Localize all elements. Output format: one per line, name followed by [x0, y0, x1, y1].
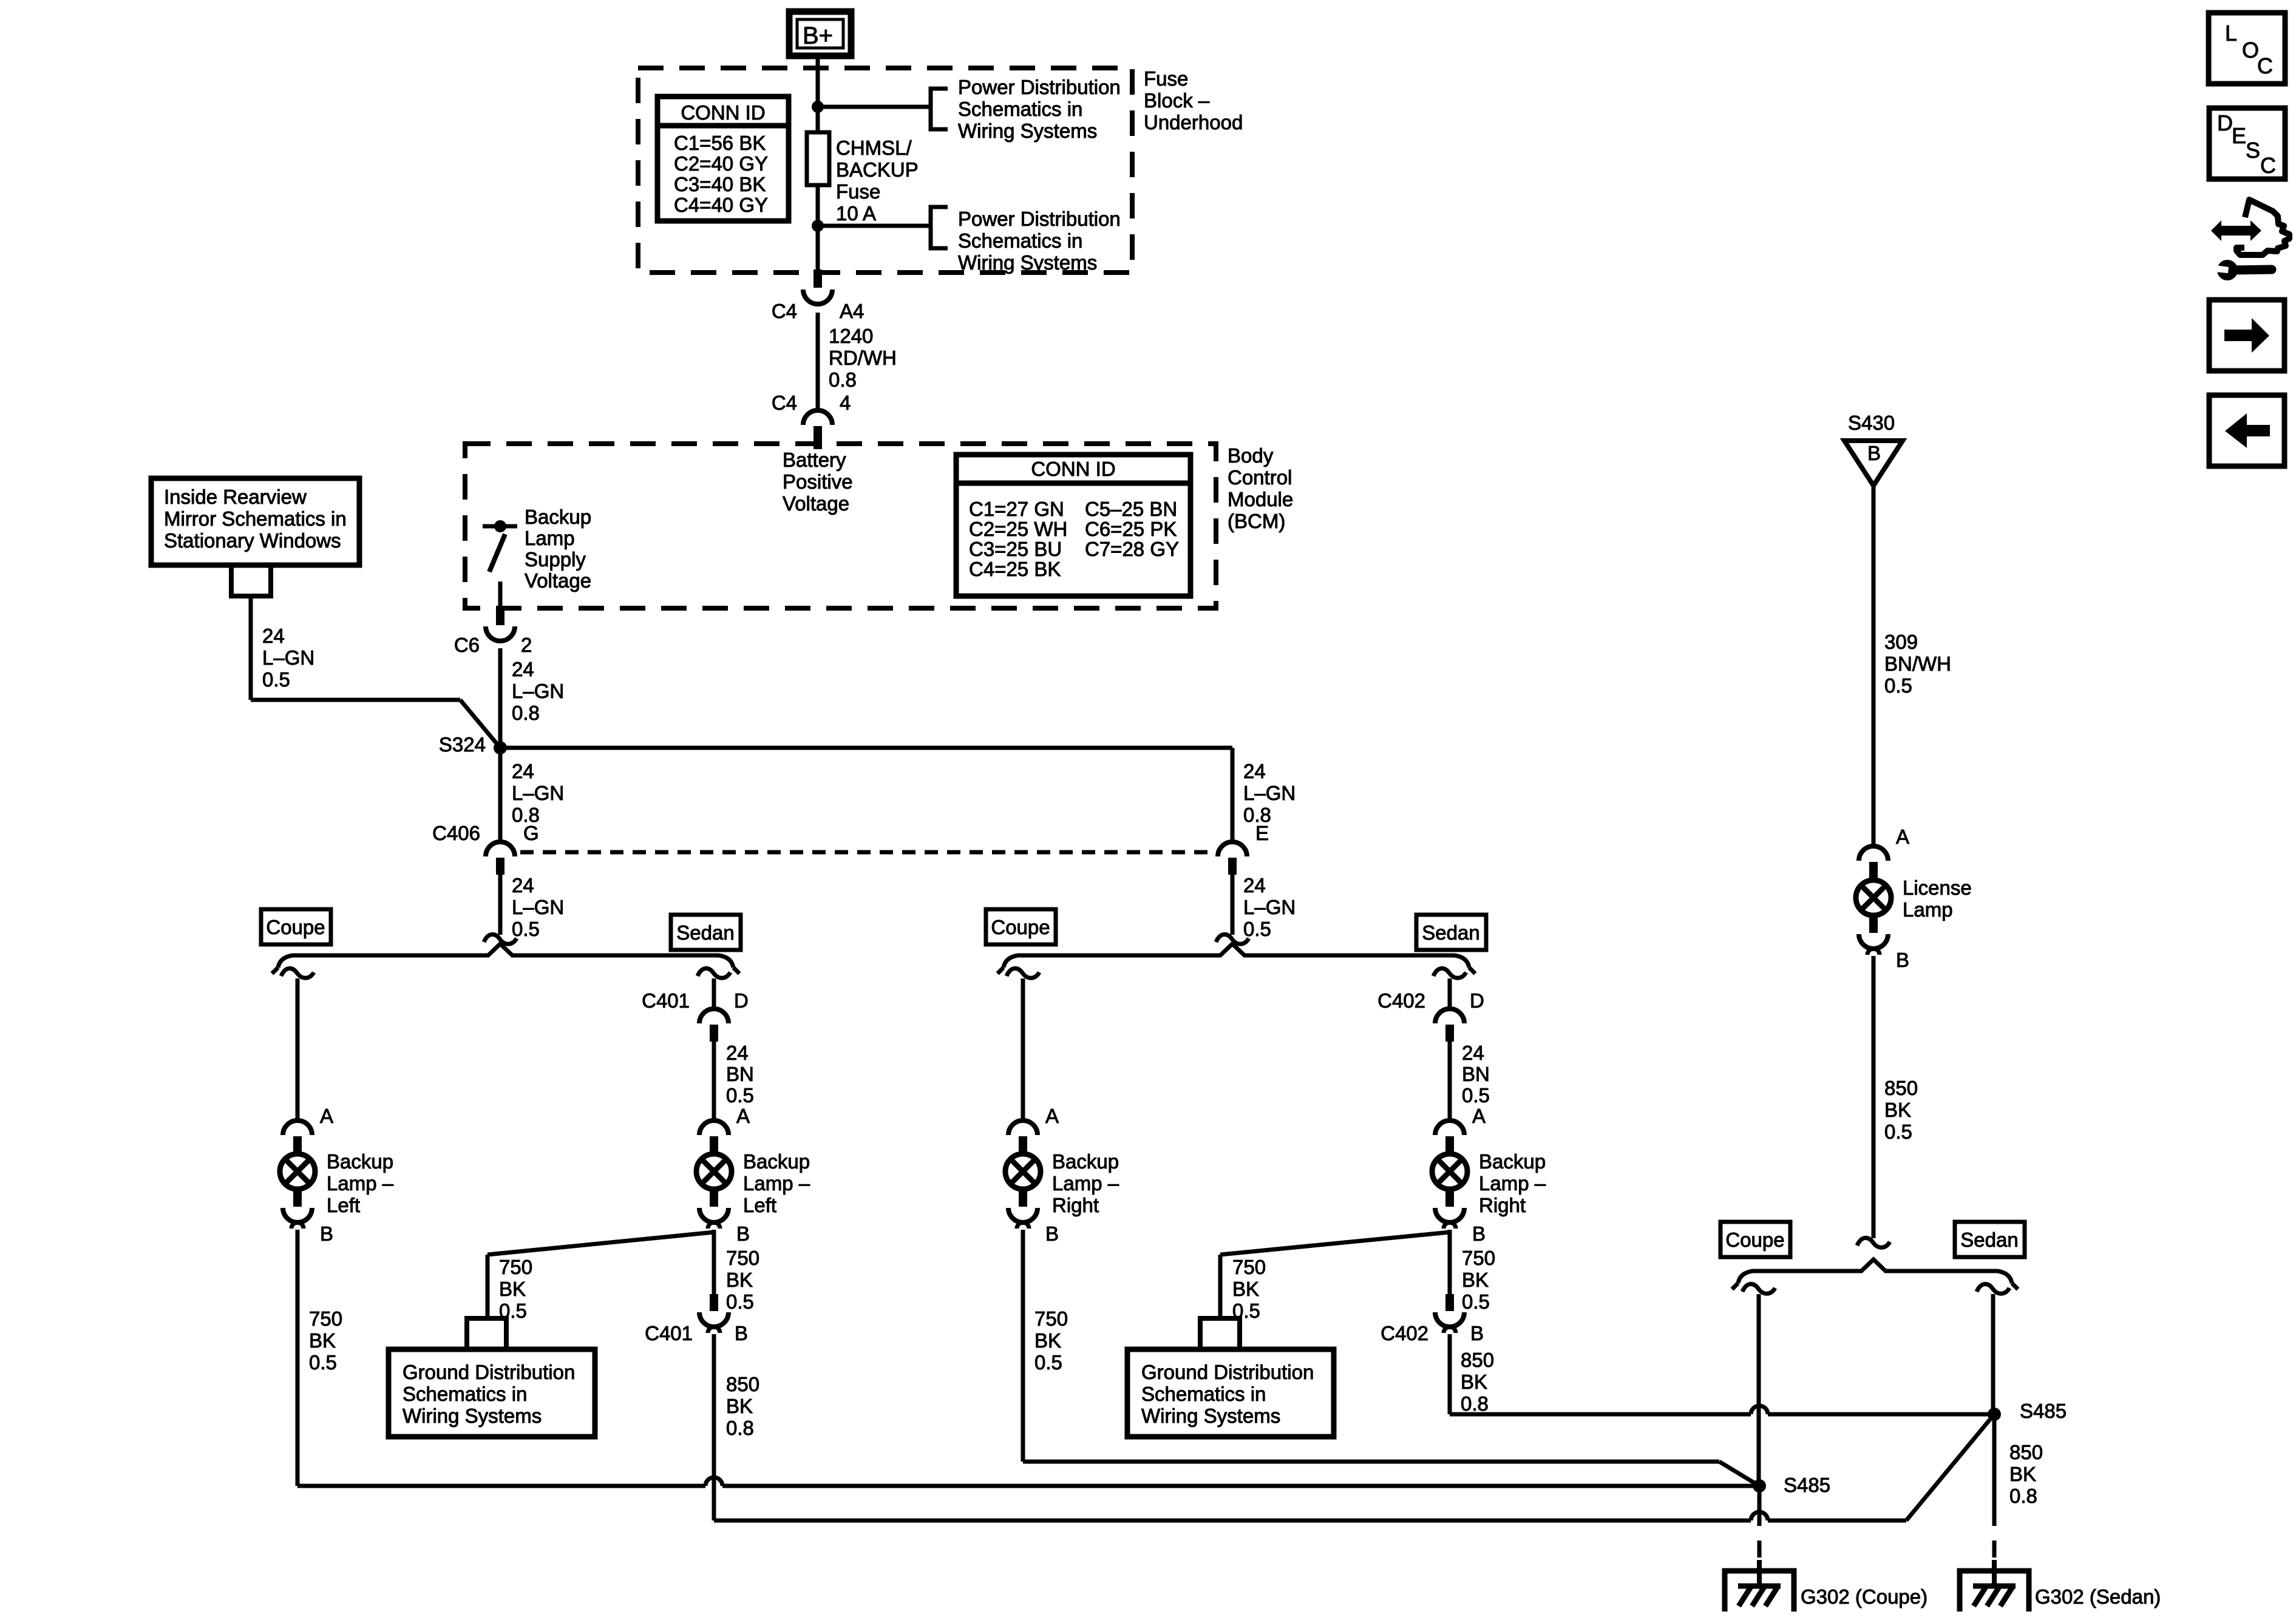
- svg-text:BK: BK: [726, 1269, 753, 1291]
- svg-text:A: A: [1472, 1105, 1486, 1127]
- svg-text:D: D: [734, 989, 749, 1012]
- svg-text:L–GN: L–GN: [512, 680, 564, 702]
- svg-text:1240: 1240: [829, 325, 873, 347]
- svg-text:10 A: 10 A: [836, 202, 876, 225]
- svg-text:C: C: [2260, 153, 2276, 178]
- svg-text:C6=25 PK: C6=25 PK: [1085, 518, 1177, 540]
- svg-text:Block –: Block –: [1144, 89, 1210, 112]
- svg-text:Backup: Backup: [1479, 1150, 1546, 1173]
- svg-text:A: A: [1045, 1105, 1059, 1127]
- svg-text:L–GN: L–GN: [1243, 782, 1296, 804]
- svg-text:B: B: [1472, 1222, 1486, 1245]
- svg-text:Backup: Backup: [1052, 1150, 1119, 1173]
- svg-text:0.5: 0.5: [1243, 918, 1271, 940]
- svg-text:L–GN: L–GN: [512, 782, 564, 804]
- svg-text:850: 850: [1884, 1077, 1918, 1099]
- svg-text:C401: C401: [642, 989, 690, 1012]
- svg-text:B+: B+: [803, 22, 833, 49]
- svg-text:850: 850: [726, 1373, 759, 1395]
- svg-text:2: 2: [521, 634, 532, 656]
- svg-text:C7=28 GY: C7=28 GY: [1085, 538, 1179, 560]
- svg-text:A: A: [1896, 825, 1909, 848]
- svg-text:S430: S430: [1848, 412, 1895, 434]
- svg-text:0.5: 0.5: [1034, 1351, 1062, 1374]
- svg-text:Voltage: Voltage: [525, 569, 591, 592]
- svg-text:C401: C401: [645, 1322, 693, 1344]
- svg-text:BK: BK: [309, 1329, 336, 1352]
- svg-text:B: B: [320, 1222, 333, 1245]
- svg-text:24: 24: [1462, 1042, 1484, 1064]
- svg-text:BK: BK: [499, 1278, 526, 1300]
- svg-text:(BCM): (BCM): [1228, 510, 1285, 532]
- svg-text:0.5: 0.5: [1462, 1290, 1490, 1313]
- svg-text:BK: BK: [2009, 1463, 2036, 1485]
- svg-text:Schematics in: Schematics in: [402, 1383, 527, 1405]
- svg-text:Lamp –: Lamp –: [743, 1172, 810, 1195]
- svg-text:Fuse: Fuse: [836, 180, 880, 203]
- svg-text:Coupe: Coupe: [1725, 1229, 1784, 1251]
- svg-text:A4: A4: [840, 300, 864, 322]
- svg-text:Wiring Systems: Wiring Systems: [958, 251, 1097, 274]
- svg-text:24: 24: [512, 760, 534, 782]
- svg-text:Left: Left: [327, 1194, 360, 1216]
- svg-text:850: 850: [2009, 1441, 2043, 1463]
- svg-text:E: E: [1255, 822, 1269, 844]
- svg-text:Lamp –: Lamp –: [327, 1172, 394, 1195]
- svg-text:C6: C6: [454, 634, 480, 656]
- svg-text:750: 750: [726, 1247, 759, 1269]
- svg-text:BN: BN: [726, 1063, 754, 1085]
- svg-text:BACKUP: BACKUP: [836, 158, 919, 181]
- svg-text:Battery: Battery: [783, 449, 846, 471]
- svg-text:4: 4: [840, 392, 851, 414]
- svg-text:Wiring Systems: Wiring Systems: [958, 120, 1097, 142]
- svg-text:BK: BK: [1461, 1371, 1487, 1393]
- svg-text:Power Distribution: Power Distribution: [958, 76, 1121, 98]
- svg-text:24: 24: [1243, 874, 1266, 897]
- svg-text:L–GN: L–GN: [1243, 896, 1296, 918]
- svg-text:CONN ID: CONN ID: [1031, 458, 1115, 480]
- svg-text:Coupe: Coupe: [991, 916, 1050, 938]
- svg-text:O: O: [2242, 38, 2259, 63]
- svg-text:C2=25 WH: C2=25 WH: [969, 518, 1067, 540]
- svg-text:Voltage: Voltage: [783, 492, 849, 515]
- svg-text:750: 750: [309, 1307, 342, 1330]
- svg-text:C1=27 GN: C1=27 GN: [969, 498, 1064, 520]
- svg-text:0.5: 0.5: [262, 668, 290, 691]
- svg-text:S: S: [2246, 138, 2260, 163]
- svg-text:Backup: Backup: [327, 1150, 393, 1173]
- svg-text:0.5: 0.5: [726, 1290, 754, 1313]
- svg-text:S485: S485: [2020, 1400, 2067, 1422]
- svg-text:24: 24: [726, 1042, 749, 1064]
- svg-text:Wiring Systems: Wiring Systems: [402, 1405, 542, 1427]
- svg-text:B: B: [1470, 1322, 1484, 1344]
- svg-text:Backup: Backup: [743, 1150, 810, 1173]
- svg-text:309: 309: [1884, 631, 1918, 653]
- svg-text:A: A: [320, 1105, 333, 1127]
- svg-text:Mirror Schematics in: Mirror Schematics in: [164, 507, 347, 530]
- svg-text:BK: BK: [1034, 1329, 1061, 1352]
- svg-text:Sedan: Sedan: [1422, 921, 1479, 944]
- svg-text:C402: C402: [1381, 1322, 1428, 1344]
- svg-text:C1=56 BK: C1=56 BK: [674, 132, 766, 154]
- svg-text:B: B: [735, 1322, 748, 1344]
- svg-text:Ground Distribution: Ground Distribution: [1141, 1361, 1314, 1383]
- svg-text:Sedan: Sedan: [1960, 1229, 2018, 1251]
- svg-text:C: C: [2257, 53, 2273, 78]
- svg-text:750: 750: [1462, 1247, 1495, 1269]
- svg-text:24: 24: [512, 658, 534, 680]
- svg-text:Lamp –: Lamp –: [1052, 1172, 1119, 1195]
- svg-text:Inside Rearview: Inside Rearview: [164, 486, 307, 508]
- svg-text:750: 750: [499, 1256, 532, 1278]
- svg-text:Lamp: Lamp: [525, 527, 575, 549]
- svg-text:BK: BK: [1462, 1269, 1489, 1291]
- svg-text:C4=25 BK: C4=25 BK: [969, 558, 1061, 580]
- svg-text:C2=40 GY: C2=40 GY: [674, 152, 768, 175]
- svg-text:Underhood: Underhood: [1144, 111, 1243, 134]
- svg-text:B: B: [1896, 949, 1909, 971]
- svg-text:Positive: Positive: [783, 470, 853, 493]
- svg-text:G302 (Sedan): G302 (Sedan): [2035, 1585, 2161, 1608]
- svg-text:G302 (Coupe): G302 (Coupe): [1801, 1585, 1927, 1608]
- svg-text:L: L: [2225, 21, 2237, 46]
- svg-text:0.5: 0.5: [1884, 674, 1912, 697]
- svg-text:C3=25 BU: C3=25 BU: [969, 538, 1062, 560]
- svg-text:24: 24: [262, 625, 285, 647]
- svg-text:C5–25 BN: C5–25 BN: [1085, 498, 1177, 520]
- svg-text:Right: Right: [1052, 1194, 1099, 1216]
- svg-text:CONN ID: CONN ID: [681, 101, 765, 124]
- svg-text:24: 24: [1243, 760, 1266, 782]
- svg-text:Left: Left: [743, 1194, 776, 1216]
- svg-text:S485: S485: [1784, 1474, 1830, 1496]
- svg-text:Ground Distribution: Ground Distribution: [402, 1361, 575, 1383]
- svg-text:C402: C402: [1377, 989, 1425, 1012]
- svg-text:Schematics in: Schematics in: [958, 229, 1082, 252]
- svg-text:Schematics in: Schematics in: [958, 98, 1082, 120]
- svg-text:L–GN: L–GN: [512, 896, 564, 918]
- svg-text:Right: Right: [1479, 1194, 1526, 1216]
- svg-text:0.8: 0.8: [726, 1417, 754, 1439]
- svg-text:A: A: [736, 1105, 750, 1127]
- svg-text:Backup: Backup: [525, 506, 591, 528]
- svg-text:Wiring Systems: Wiring Systems: [1141, 1405, 1280, 1427]
- svg-text:850: 850: [1461, 1349, 1494, 1371]
- svg-text:750: 750: [1232, 1256, 1266, 1278]
- svg-text:E: E: [2232, 123, 2246, 148]
- svg-text:CHMSL/: CHMSL/: [836, 137, 912, 159]
- svg-text:Power Distribution: Power Distribution: [958, 208, 1121, 230]
- svg-text:0.5: 0.5: [1462, 1084, 1490, 1107]
- svg-text:750: 750: [1034, 1307, 1068, 1330]
- svg-text:Module: Module: [1228, 488, 1293, 510]
- svg-text:0.8: 0.8: [829, 368, 857, 391]
- svg-text:L–GN: L–GN: [262, 646, 314, 669]
- svg-text:BK: BK: [1232, 1278, 1259, 1300]
- svg-text:C406: C406: [432, 822, 480, 844]
- svg-text:G: G: [523, 822, 539, 844]
- svg-text:0.8: 0.8: [1461, 1392, 1489, 1415]
- svg-text:C4: C4: [772, 300, 797, 322]
- svg-text:Sedan: Sedan: [676, 921, 734, 944]
- svg-text:BN/WH: BN/WH: [1884, 653, 1951, 675]
- svg-text:BK: BK: [1884, 1099, 1911, 1121]
- svg-text:0.5: 0.5: [726, 1084, 754, 1107]
- svg-text:RD/WH: RD/WH: [829, 347, 897, 369]
- svg-text:0.5: 0.5: [1884, 1120, 1912, 1143]
- svg-text:B: B: [1045, 1222, 1059, 1245]
- svg-text:Stationary Windows: Stationary Windows: [164, 529, 341, 552]
- svg-text:C4: C4: [772, 392, 797, 414]
- svg-text:0.5: 0.5: [512, 918, 540, 940]
- svg-text:C3=40 BK: C3=40 BK: [674, 173, 766, 195]
- svg-text:D: D: [1470, 989, 1484, 1012]
- svg-text:S324: S324: [439, 733, 486, 756]
- svg-text:BK: BK: [726, 1395, 753, 1417]
- svg-text:24: 24: [512, 874, 534, 897]
- svg-text:Lamp: Lamp: [1903, 898, 1953, 921]
- svg-text:0.5: 0.5: [309, 1351, 337, 1374]
- svg-text:C4=40 GY: C4=40 GY: [674, 194, 768, 216]
- svg-text:Supply: Supply: [525, 548, 586, 571]
- svg-text:D: D: [2217, 110, 2233, 135]
- svg-text:Coupe: Coupe: [266, 916, 325, 938]
- svg-text:B: B: [736, 1222, 750, 1245]
- svg-text:Body: Body: [1228, 444, 1274, 467]
- svg-text:License: License: [1903, 876, 1972, 899]
- svg-text:Control: Control: [1228, 466, 1292, 489]
- svg-text:Lamp –: Lamp –: [1479, 1172, 1546, 1195]
- svg-text:Schematics in: Schematics in: [1141, 1383, 1266, 1405]
- svg-text:0.8: 0.8: [512, 702, 540, 724]
- svg-text:BN: BN: [1462, 1063, 1490, 1085]
- svg-text:B: B: [1867, 442, 1881, 464]
- svg-text:0.8: 0.8: [2009, 1485, 2037, 1507]
- svg-text:Fuse: Fuse: [1144, 67, 1188, 90]
